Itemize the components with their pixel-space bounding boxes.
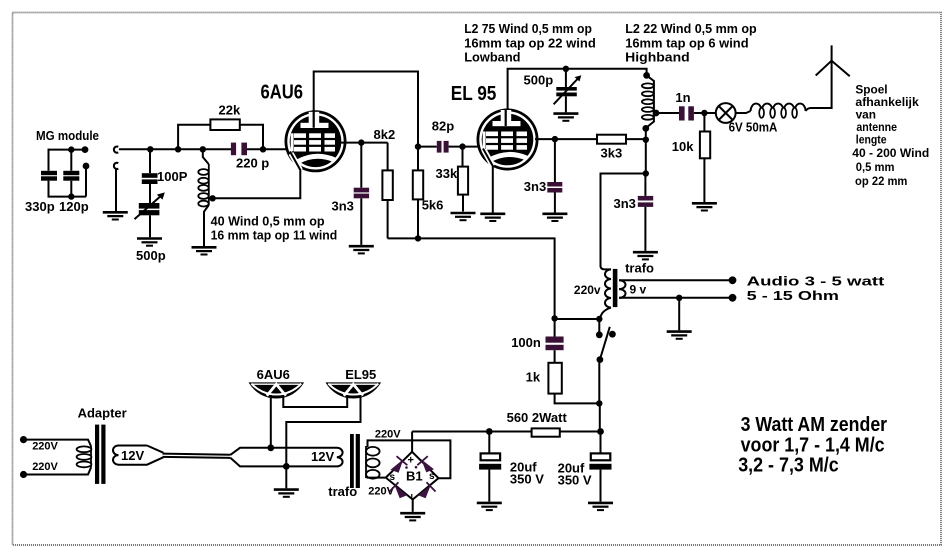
svg-text:1n: 1n: [675, 90, 690, 105]
svg-text:5k6: 5k6: [422, 198, 444, 213]
wire main input: [119, 148, 231, 150]
svg-text:350 V: 350 V: [510, 472, 544, 487]
capacitor 20uf B: [558, 432, 612, 502]
diode D2 (bridge UR): [417, 456, 434, 472]
svg-text:+: +: [408, 455, 414, 467]
wire 6AU6 screen out: [340, 142, 388, 144]
svg-text:MG module: MG module: [36, 128, 99, 143]
ground 3n3 (6AU6): [349, 246, 374, 253]
transformer audio secondary: [619, 280, 647, 298]
transformer audio primary: [574, 266, 611, 319]
svg-text:16mm tap op 6 wind: 16mm tap op 6 wind: [625, 36, 748, 51]
node dot 22k left: [175, 146, 181, 152]
ground 3n3 (EL95): [542, 214, 567, 221]
adapter primary coil: [77, 446, 92, 468]
wire 560 to node: [560, 431, 601, 433]
heater EL95: [326, 382, 382, 398]
power trafo core: [350, 434, 360, 488]
svg-text:560 2Watt: 560 2Watt: [507, 410, 568, 425]
node dot heater 12V: [267, 444, 274, 451]
capacitor 100n: [511, 318, 563, 362]
coil L2 bottom dot: [642, 125, 649, 132]
node dot screen: [358, 139, 364, 145]
node dot audio gnd: [676, 295, 682, 301]
svg-text:3n3: 3n3: [332, 199, 354, 214]
transformer audio core: [613, 269, 618, 307]
svg-text:40 - 200 Wind: 40 - 200 Wind: [852, 146, 929, 160]
wire audio gnd: [678, 298, 680, 331]
power trafo 220V winding: [366, 446, 380, 479]
ground audio: [667, 332, 692, 339]
wire audio out top: [619, 279, 733, 281]
svg-text:500p: 500p: [524, 73, 554, 88]
svg-text:lengte: lengte: [856, 132, 887, 146]
svg-text:Adapter: Adapter: [78, 406, 127, 421]
capacitor 220 p: [231, 143, 290, 171]
node dot 10k top: [701, 110, 707, 116]
svg-text:trafo: trafo: [625, 261, 654, 276]
svg-text:L2 22 Wind 0,5 mm op: L2 22 Wind 0,5 mm op: [625, 21, 757, 36]
variable capacitor 500p tank: [524, 69, 582, 113]
wire 220V upper: [24, 440, 92, 446]
capacitor 120p: [59, 150, 89, 214]
bridge rectifier B1: [386, 452, 439, 501]
svg-text:40 Wind 0,5 mm op: 40 Wind 0,5 mm op: [211, 214, 325, 229]
svg-text:EL95: EL95: [345, 367, 376, 382]
terminal 220V lower: [20, 471, 27, 478]
svg-text:220V: 220V: [32, 441, 58, 453]
ground input: [103, 212, 128, 219]
svg-text:330p: 330p: [25, 199, 55, 214]
resistor 1k: [526, 363, 600, 404]
svg-text:9 v: 9 v: [630, 283, 647, 297]
svg-text:33k: 33k: [436, 166, 458, 181]
wire L2 return to trafo: [601, 174, 646, 268]
node dot 82p left: [415, 143, 421, 149]
svg-text:B1: B1: [406, 469, 423, 484]
twisted pair: [163, 454, 231, 458]
resistor 8k2: [382, 143, 392, 239]
wire EL95 heater right pin: [286, 395, 360, 466]
coil L2: [642, 75, 654, 128]
svg-text:120p: 120p: [59, 199, 89, 214]
heater 6AU6: [248, 382, 304, 398]
12V plug right: [231, 448, 343, 467]
resistor 3k3: [597, 135, 646, 161]
wire 220V lower: [24, 468, 92, 475]
node dot 220p right: [260, 146, 266, 152]
wire 6AU6 cathode: [213, 152, 301, 199]
svg-text:5 - 15 Ohm: 5 - 15 Ohm: [747, 288, 839, 303]
resistor 5k6: [413, 147, 444, 239]
wire EL95 screen out: [535, 138, 597, 140]
wire trafo AC bottom to bridge: [368, 476, 386, 478]
terminal 220V upper: [20, 436, 27, 443]
resistor 33k: [436, 147, 469, 212]
wire screen rail: [388, 238, 555, 318]
wire tap to 1n: [656, 112, 679, 114]
ground 20uf A: [477, 503, 502, 510]
wire EL95 cathode: [483, 149, 493, 213]
svg-text:3k3: 3k3: [601, 146, 623, 161]
svg-text:1k: 1k: [526, 370, 541, 385]
wire coil to antenna: [806, 45, 832, 111]
node dot 100n top: [551, 315, 557, 321]
wire MG module top: [49, 149, 86, 151]
ground 500p: [137, 239, 162, 246]
oscillator coil tap dot: [209, 195, 215, 201]
node dot 20uf B: [597, 428, 604, 435]
coil L2 top dot: [643, 72, 650, 79]
oscillator coil loops: [198, 164, 209, 207]
svg-text:L2 75 Wind 0,5 mm op: L2 75 Wind 0,5 mm op: [464, 21, 592, 36]
node dot heater return: [283, 463, 290, 470]
antenna coil: [751, 104, 806, 118]
svg-text:220V: 220V: [375, 429, 401, 441]
svg-text:220v: 220v: [574, 283, 601, 297]
svg-text:220 p: 220 p: [236, 156, 269, 171]
capacitor 20uf A: [479, 432, 544, 502]
svg-text:Audio 3 - 5 watt: Audio 3 - 5 watt: [747, 274, 886, 289]
svg-text:12V: 12V: [121, 448, 144, 463]
12V plug left: [113, 446, 164, 465]
svg-text:220V: 220V: [32, 461, 58, 473]
label L2 lowband block: [464, 21, 596, 65]
variable capacitor 500p: [135, 192, 166, 263]
wire heater return ground: [285, 466, 287, 488]
junction dots MG module: [68, 146, 89, 200]
diode D4 (bridge LR): [418, 482, 436, 498]
svg-text:s: s: [390, 472, 396, 483]
switch: [596, 316, 616, 407]
svg-text:22k: 22k: [219, 103, 241, 118]
ground 33k: [451, 213, 476, 220]
svg-text:100n: 100n: [511, 335, 541, 350]
svg-text:82p: 82p: [432, 119, 454, 134]
svg-text:500p: 500p: [136, 248, 166, 263]
wire coil bottom to ground: [204, 205, 209, 246]
capacitor 100P: [142, 149, 188, 203]
ground EL95 cathode: [480, 214, 505, 221]
label L2 highband block: [625, 21, 757, 65]
node dot 3k3 right: [643, 137, 649, 143]
svg-text:16mm tap op 22 wind: 16mm tap op 22 wind: [464, 36, 596, 51]
wire lamp to antenna coil: [736, 111, 751, 113]
wire MG module right: [85, 166, 87, 197]
ground 3n3 (L2): [633, 252, 658, 259]
wire L2 bottom to 3k3 node: [645, 128, 647, 173]
svg-text:3n3: 3n3: [614, 196, 636, 211]
oscillator coil 40 Wind leads: [203, 149, 209, 164]
label Spoel block: [852, 82, 929, 188]
audio terminal dots: [729, 276, 737, 284]
node dot 5k6 bottom: [415, 235, 421, 241]
ground 10k: [692, 203, 717, 210]
svg-text:6V 50mA: 6V 50mA: [729, 120, 778, 135]
ground heater: [274, 490, 299, 497]
svg-text:op 22 mm: op 22 mm: [855, 174, 907, 188]
capacitor 3n3 (EL95): [524, 139, 563, 212]
svg-text:Highband: Highband: [625, 50, 690, 65]
node dot 100P: [147, 146, 153, 152]
svg-text:EL 95: EL 95: [451, 83, 497, 105]
node dot coil top: [200, 146, 206, 152]
svg-text:16 mm tap op 11 wind: 16 mm tap op 11 wind: [211, 228, 338, 243]
svg-text:s: s: [429, 471, 435, 482]
svg-text:3,2 - 7,3 M/c: 3,2 - 7,3 M/c: [738, 455, 839, 477]
wire bridge plus to rail: [411, 432, 413, 452]
svg-text:6AU6: 6AU6: [261, 82, 304, 104]
svg-text:350 V: 350 V: [558, 473, 592, 488]
coil L2 tap dot: [653, 110, 660, 117]
svg-text:6AU6: 6AU6: [257, 367, 290, 382]
wire audio out bottom: [619, 297, 733, 299]
wire 6AU6 plate to top rail: [314, 72, 418, 147]
wire trafo AC top: [368, 440, 451, 478]
resistor 560: [532, 428, 560, 436]
ground 500p tank: [553, 114, 578, 121]
node dot 500p tank: [563, 66, 569, 72]
bridge inner dots: [405, 466, 417, 469]
adapter core: [95, 425, 106, 484]
input hook terminal upper: [114, 147, 118, 153]
resistor 22k: [178, 103, 263, 150]
wire 6AU6 heater left pin: [270, 395, 272, 448]
vacuum tube 6AU6: [285, 110, 347, 172]
node dot 33k top: [459, 143, 465, 149]
vacuum tube EL95: [477, 109, 539, 171]
svg-text:3 Watt AM zender: 3 Watt AM zender: [741, 414, 888, 436]
diode D3 (bridge LL): [390, 482, 408, 498]
ground bridge: [400, 513, 425, 520]
title text: [738, 414, 887, 477]
svg-text:12V: 12V: [311, 449, 334, 464]
wire node to switch: [555, 318, 600, 320]
capacitor 82p: [418, 119, 479, 153]
capacitor 3n3 (6AU6): [332, 143, 370, 245]
svg-text:10k: 10k: [672, 139, 694, 154]
wire MG module bottom: [49, 196, 87, 198]
lamp 6V 50mA: [716, 103, 778, 134]
wire EL95 plate to tank: [508, 69, 647, 110]
diode D1 (bridge UL): [391, 456, 408, 473]
node dot L2 return: [643, 170, 649, 176]
wire 6AU6 to EL95 heater link: [283, 395, 347, 407]
antenna: [816, 61, 850, 77]
input hook terminal lower: [114, 163, 118, 169]
capacitor 1n: [675, 90, 715, 121]
ground oscillator coil: [192, 247, 217, 254]
ground 20uf B: [588, 503, 613, 510]
node dot 20uf A: [486, 428, 493, 435]
wire switch to rail: [599, 403, 601, 431]
capacitor 3n3 (L2): [614, 174, 654, 251]
svg-text:voor 1,7 - 1,4 M/c: voor 1,7 - 1,4 M/c: [741, 435, 885, 457]
wire hook lower to ground: [115, 169, 117, 212]
node dot 3n3 EL95: [552, 136, 558, 142]
svg-text:8k2: 8k2: [374, 127, 396, 142]
svg-text:100P: 100P: [157, 169, 188, 184]
wire B+ rail: [412, 431, 531, 433]
svg-text:Lowband: Lowband: [464, 50, 520, 65]
svg-text:3n3: 3n3: [524, 179, 546, 194]
capacitor 330p: [25, 149, 57, 214]
resistor 10k: [672, 113, 710, 202]
svg-text:0,5 mm: 0,5 mm: [856, 160, 895, 174]
wire bridge minus to ground: [412, 500, 414, 512]
